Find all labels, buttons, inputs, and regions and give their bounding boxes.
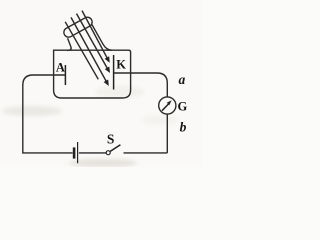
svg-text:S: S xyxy=(107,131,115,146)
svg-text:A: A xyxy=(56,61,65,75)
svg-text:K: K xyxy=(116,57,126,71)
svg-text:b: b xyxy=(180,119,187,134)
svg-text:G: G xyxy=(178,99,188,113)
svg-text:a: a xyxy=(179,72,186,87)
